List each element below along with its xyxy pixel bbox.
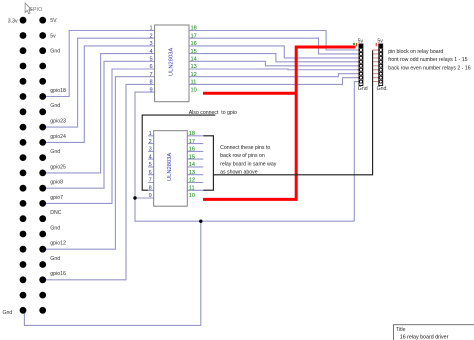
svg-text:15: 15 <box>189 154 195 160</box>
svg-text:ULN2803A: ULN2803A <box>167 153 173 181</box>
svg-text:9: 9 <box>149 87 152 93</box>
svg-text:18: 18 <box>189 131 195 137</box>
svg-text:3: 3 <box>149 147 152 153</box>
svg-text:13: 13 <box>189 170 195 176</box>
svg-text:gpio8: gpio8 <box>50 180 63 186</box>
svg-text:2: 2 <box>149 139 152 145</box>
svg-text:5: 5 <box>149 162 152 168</box>
svg-text:gpio25: gpio25 <box>50 164 66 170</box>
svg-text:6: 6 <box>149 64 152 70</box>
svg-text:16 relay board driver: 16 relay board driver <box>400 335 449 340</box>
svg-text:Gnd: Gnd <box>50 103 60 109</box>
svg-text:10: 10 <box>189 193 195 199</box>
svg-text:1: 1 <box>149 131 152 137</box>
svg-text:gpio16: gpio16 <box>50 271 66 277</box>
svg-text:Gnd: Gnd <box>50 225 60 231</box>
svg-text:10: 10 <box>191 87 197 93</box>
svg-text:7: 7 <box>149 178 152 184</box>
svg-text:8: 8 <box>149 80 152 86</box>
svg-text:1: 1 <box>149 26 152 32</box>
svg-text:8: 8 <box>149 186 152 192</box>
svg-text:gpio18: gpio18 <box>50 88 66 94</box>
svg-text:back row even number relays 2: back row even number relays 2 - 16 <box>388 65 471 71</box>
svg-text:18: 18 <box>191 26 197 32</box>
svg-text:Gnd.: Gnd. <box>377 86 388 92</box>
svg-text:17: 17 <box>189 139 195 145</box>
svg-text:14: 14 <box>189 162 195 168</box>
svg-text:11: 11 <box>191 80 197 86</box>
svg-text:3: 3 <box>149 41 152 47</box>
svg-text:15: 15 <box>191 49 197 55</box>
svg-text:14: 14 <box>191 57 197 63</box>
svg-text:Gnd: Gnd <box>50 256 60 262</box>
svg-text:4: 4 <box>149 49 152 55</box>
svg-text:2: 2 <box>149 33 152 39</box>
svg-text:3.3v: 3.3v <box>8 18 18 24</box>
svg-text:16: 16 <box>189 147 195 153</box>
svg-text:GPIO: GPIO <box>29 7 42 13</box>
svg-text:5v: 5v <box>377 39 383 45</box>
svg-text:5v: 5v <box>50 33 56 39</box>
svg-text:Gnd: Gnd <box>358 86 368 92</box>
svg-text:Gnd: Gnd <box>3 310 13 316</box>
svg-text:12: 12 <box>191 72 197 78</box>
svg-text:relay board in same way: relay board in same way <box>220 161 277 167</box>
svg-text:Also connect to gpio: Also connect to gpio <box>189 110 237 116</box>
svg-text:17: 17 <box>191 33 197 39</box>
svg-text:as shown above: as shown above <box>220 169 258 175</box>
svg-text:13: 13 <box>191 64 197 70</box>
svg-text:DNC: DNC <box>50 210 61 216</box>
svg-text:Gnd: Gnd <box>50 149 60 155</box>
svg-text:ULN2803A: ULN2803A <box>168 48 174 76</box>
svg-text:16: 16 <box>191 41 197 47</box>
svg-text:6: 6 <box>149 170 152 176</box>
svg-text:Gnd: Gnd <box>50 49 60 55</box>
svg-text:5V: 5V <box>50 18 57 24</box>
svg-text:7: 7 <box>149 72 152 78</box>
svg-text:5v: 5v <box>358 39 364 45</box>
svg-text:pin block on relay board: pin block on relay board <box>388 49 443 55</box>
svg-text:11: 11 <box>189 186 195 192</box>
svg-text:4: 4 <box>149 154 152 160</box>
svg-text:9: 9 <box>149 193 152 199</box>
svg-text:gpio23: gpio23 <box>50 118 66 124</box>
svg-text:Connect these pins to: Connect these pins to <box>220 145 270 151</box>
svg-text:front row odd number relays 1: front row odd number relays 1 - 15 <box>388 57 467 63</box>
svg-text:12: 12 <box>189 178 195 184</box>
svg-text:gpio7: gpio7 <box>50 195 63 201</box>
svg-text:gpio12: gpio12 <box>50 241 66 247</box>
svg-text:gpio24: gpio24 <box>50 134 66 140</box>
svg-text:back row of pins on: back row of pins on <box>220 153 265 159</box>
svg-text:Title: Title <box>396 327 405 333</box>
svg-text:5: 5 <box>149 57 152 63</box>
